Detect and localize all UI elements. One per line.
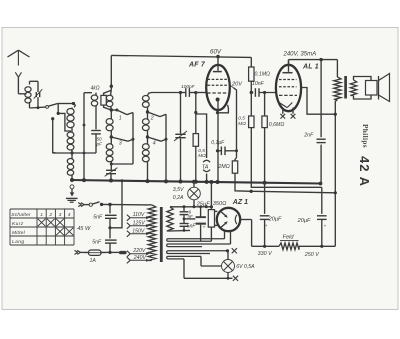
fuse 1A (81, 251, 89, 253)
svg-text:Feld: Feld (283, 235, 295, 241)
wire AZ1 plate risers (224, 231, 226, 239)
coil L5 (110, 110, 112, 119)
svg-text:1: 1 (119, 116, 122, 122)
svg-text:240V, 35mA: 240V, 35mA (283, 52, 317, 58)
node (226, 249, 229, 252)
bus chassis (72, 180, 321, 184)
node (110, 108, 113, 111)
svg-text:Lang: Lang (12, 239, 24, 245)
capacitor 5nF lower (109, 228, 111, 239)
switch contact 3 (111, 137, 128, 141)
wire lamp feed (200, 256, 202, 266)
svg-text:2MΩ: 2MΩ (218, 164, 230, 170)
wire shorting bar 2 (165, 114, 167, 181)
capacitor 20uF first (264, 183, 266, 214)
node (110, 85, 113, 88)
lamp 6V (222, 260, 235, 273)
coil L8 (147, 112, 149, 119)
coil L2a (67, 109, 74, 115)
svg-text:MΩ: MΩ (198, 153, 206, 159)
svg-text:3: 3 (119, 141, 122, 147)
antenna coil L1 (25, 87, 31, 92)
resistor 4k (110, 86, 112, 90)
wire (71, 127, 73, 132)
node switch junction (57, 104, 59, 114)
ground (66, 197, 78, 199)
capacitor 20uF second (321, 187, 323, 214)
capacitor 6nF (183, 207, 185, 211)
tap 240V (127, 257, 130, 260)
transformer heater winding (167, 207, 173, 231)
svg-text:10nF: 10nF (252, 81, 265, 87)
wire antenna lead (17, 77, 19, 94)
ground connector (70, 185, 74, 189)
node (334, 113, 337, 116)
svg-text:4: 4 (153, 141, 156, 147)
svg-text:0,1µF: 0,1µF (211, 140, 225, 146)
svg-text:+: + (265, 223, 268, 228)
wire AZ1 cathode out (240, 219, 251, 221)
resistor 2M (236, 151, 238, 158)
capacitor 50pF (91, 130, 101, 132)
svg-text:240V: 240V (133, 255, 147, 261)
tube AZ1 anodes (221, 212, 227, 217)
wire shorting bar (132, 113, 134, 165)
capacitor 5nF (183, 219, 185, 223)
tube AF7 cathode (216, 98, 220, 102)
heater terminal x (280, 114, 285, 119)
svg-text:MΩ: MΩ (238, 121, 246, 127)
transformer core (344, 76, 347, 99)
transformer core (160, 207, 163, 262)
node (108, 251, 111, 254)
coil L7 (142, 96, 149, 102)
HT winding b (168, 243, 231, 245)
speaker magnet (366, 81, 378, 96)
svg-text:1A: 1A (90, 258, 97, 264)
node (263, 245, 266, 248)
switch antenna (46, 106, 49, 109)
pickup TA (203, 160, 210, 162)
antenna trimmer capacitor (37, 81, 39, 92)
svg-text:125V: 125V (133, 221, 146, 227)
svg-text:3,5V: 3,5V (173, 187, 184, 193)
tap 110V (127, 215, 130, 218)
mains switch (84, 204, 89, 206)
tap 220V (127, 251, 130, 254)
svg-text:Philips: Philips (361, 124, 369, 148)
svg-text:+: + (324, 223, 327, 228)
node anode junction (319, 58, 322, 61)
node (146, 110, 149, 113)
tap 150V (127, 231, 130, 234)
svg-text:350Ω: 350Ω (213, 201, 227, 207)
coil L2b (67, 132, 74, 138)
resistor 0.6M (263, 91, 266, 94)
svg-text:20V: 20V (231, 81, 243, 87)
svg-text:2nF: 2nF (303, 133, 314, 139)
capacitor 10nF (251, 92, 253, 94)
coil L2c (71, 153, 73, 159)
heater winding 6V a (168, 250, 228, 252)
wire mains top (102, 203, 149, 206)
coil L3 (91, 95, 97, 100)
svg-text:20µF: 20µF (268, 216, 282, 222)
svg-text:25µF: 25µF (196, 201, 210, 207)
svg-text:Schalter: Schalter (11, 212, 31, 218)
field coil (252, 245, 279, 247)
svg-text:5nF: 5nF (93, 214, 103, 220)
svg-text:45 W: 45 W (77, 226, 91, 232)
coil L9 (147, 137, 149, 144)
resistor 0.1M (250, 57, 252, 67)
trimmer capacitor (110, 164, 112, 170)
coil L4 parallel 4k (110, 90, 113, 95)
tube AL1 filament (278, 102, 288, 108)
svg-text:42 A: 42 A (357, 156, 372, 187)
svg-text:5nF: 5nF (92, 239, 102, 245)
transformer primary (336, 60, 338, 77)
svg-text:5nF: 5nF (187, 224, 197, 230)
svg-text:330 V: 330 V (258, 251, 273, 257)
HT winding a (168, 238, 225, 240)
svg-text:2: 2 (48, 212, 52, 218)
svg-text:1: 1 (40, 212, 43, 218)
tube AZ1 envelope (217, 208, 240, 231)
wire heater top (170, 206, 211, 208)
resistor 350 (210, 182, 212, 210)
switch contact 1 (117, 110, 127, 115)
node (110, 135, 113, 138)
switch table (10, 208, 74, 210)
capacitor 100pF (185, 88, 187, 97)
node grid (194, 91, 197, 94)
tube AL1 heater pins (282, 108, 284, 114)
svg-text:Mittel: Mittel (12, 230, 26, 236)
svg-text:0,5: 0,5 (238, 116, 245, 122)
capacitor 5nF upper (109, 205, 111, 214)
transformer secondary (350, 80, 356, 96)
tap 125V (127, 223, 130, 226)
tube AF7 cathode lead (217, 100, 219, 183)
wire 60V rail (111, 55, 251, 57)
wire (183, 259, 185, 278)
svg-text:0,1MΩ: 0,1MΩ (255, 72, 271, 78)
capacitor 25uF (200, 208, 202, 217)
tube AL1 grids (279, 79, 297, 81)
svg-text:100pF: 100pF (181, 84, 196, 90)
node (183, 218, 186, 221)
node coil junction (70, 151, 73, 154)
tube AF7 grids (208, 78, 229, 80)
tube AL1 anode (288, 60, 290, 72)
svg-text:3: 3 (59, 212, 62, 218)
svg-text:+: + (203, 226, 206, 231)
svg-text:AF 7: AF 7 (188, 62, 206, 69)
svg-text:AL 1: AL 1 (302, 64, 319, 71)
resistor 0.5M grid leak (195, 93, 197, 134)
mains pins top (78, 203, 81, 205)
wire antenna coil bottom (30, 106, 46, 109)
tuning capacitor (180, 93, 182, 134)
switch table crosses (38, 219, 46, 226)
heater winding 6V b (168, 255, 201, 257)
wire bias rail (251, 183, 321, 188)
node (146, 135, 149, 138)
tube AF7 top cap (216, 55, 220, 59)
svg-text:0,2A: 0,2A (173, 195, 184, 201)
svg-text:2: 2 (150, 116, 154, 122)
svg-text:60V: 60V (210, 49, 222, 56)
wire (206, 174, 208, 182)
antenna (8, 50, 19, 57)
svg-text:110V: 110V (133, 212, 145, 218)
svg-text:150V: 150V (132, 229, 145, 235)
switch contact 2 (148, 112, 161, 117)
wire tap y153 (53, 152, 96, 154)
wire grid lead (148, 93, 181, 96)
svg-text:TA: TA (202, 164, 209, 170)
transformer primary winding (148, 205, 156, 261)
wire heater bottom (170, 229, 190, 232)
svg-text:220V: 220V (132, 248, 146, 254)
svg-text:250 V: 250 V (304, 252, 320, 258)
bus junction dots (70, 178, 74, 182)
wire TA (196, 113, 207, 159)
wire AL1 anode top (288, 60, 290, 65)
svg-text:20µF: 20µF (297, 218, 311, 224)
svg-text:AZ 1: AZ 1 (232, 199, 248, 206)
tube AF7 envelope (206, 65, 230, 110)
wire grid-coil top (84, 92, 92, 94)
svg-text:4: 4 (68, 212, 71, 218)
lamp 3.5V (188, 187, 201, 200)
wire AF7 pin (218, 105, 228, 113)
wire cap midpoint to bus (110, 181, 122, 228)
wire rail 2 (250, 190, 253, 193)
node (250, 91, 253, 94)
node (108, 226, 111, 229)
terminal x (232, 248, 237, 253)
capacitor 2nF (320, 60, 322, 138)
svg-text:4kΩ: 4kΩ (91, 86, 100, 92)
speaker cone (378, 76, 380, 100)
mains pins bottom (75, 250, 78, 252)
coil L6 (110, 137, 112, 144)
wire lamp bottom (184, 277, 233, 279)
tube AL1 envelope (276, 65, 301, 111)
wire anode (234, 88, 237, 151)
resistor 0.5M (250, 93, 252, 117)
wire primary top (149, 204, 153, 206)
svg-text:0,6MΩ: 0,6MΩ (269, 122, 285, 128)
svg-text:6V 0,5A: 6V 0,5A (236, 264, 255, 270)
wire AL1 screen (301, 88, 336, 115)
switch contact 4 (148, 137, 162, 141)
mains plug (110, 251, 119, 253)
terminal x (233, 276, 238, 281)
svg-text:Kurz: Kurz (12, 221, 24, 227)
